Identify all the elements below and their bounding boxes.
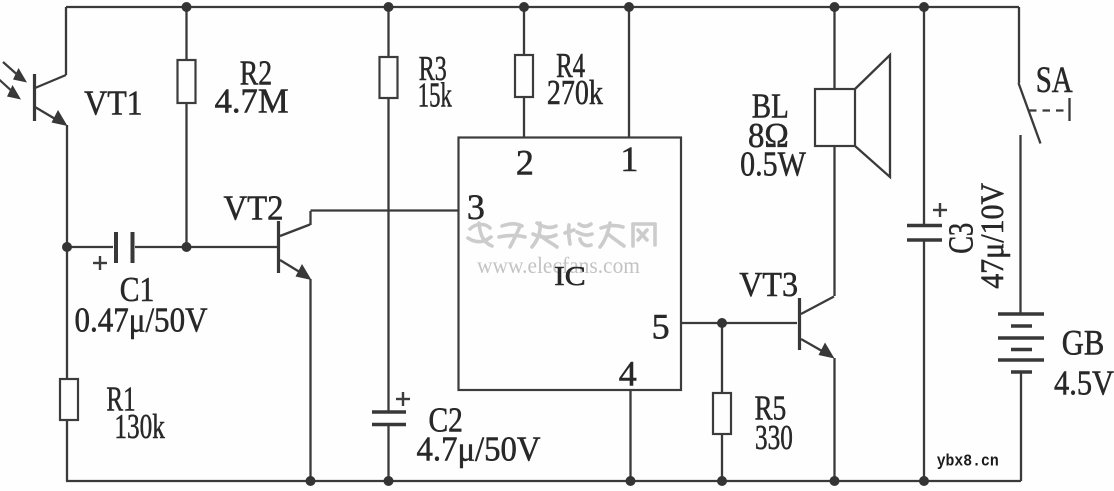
svg-text:130k: 130k xyxy=(114,407,165,446)
svg-text:47μ/10V: 47μ/10V xyxy=(975,183,1011,289)
svg-text:ybx8.cn: ybx8.cn xyxy=(937,453,999,472)
svg-text:0.47μ/50V: 0.47μ/50V xyxy=(75,301,208,340)
svg-text:270k: 270k xyxy=(547,73,603,112)
svg-text:SA: SA xyxy=(1036,60,1073,101)
svg-text:5: 5 xyxy=(652,307,670,347)
svg-text:VT3: VT3 xyxy=(739,265,798,304)
svg-text:IC: IC xyxy=(554,261,585,291)
svg-text:4.5V: 4.5V xyxy=(1054,364,1114,403)
svg-text:2: 2 xyxy=(516,143,534,183)
svg-text:VT1: VT1 xyxy=(84,84,143,123)
svg-text:330: 330 xyxy=(755,418,793,457)
svg-text:1: 1 xyxy=(620,139,638,179)
svg-text:3: 3 xyxy=(467,187,485,227)
svg-text:4: 4 xyxy=(619,354,637,394)
svg-text:0.5W: 0.5W xyxy=(740,145,806,184)
svg-text:GB: GB xyxy=(1062,323,1105,363)
svg-text:VT2: VT2 xyxy=(224,189,284,228)
svg-text:4.7μ/50V: 4.7μ/50V xyxy=(417,430,541,469)
svg-text:15k: 15k xyxy=(418,76,452,115)
svg-text:4.7M: 4.7M xyxy=(215,82,289,121)
